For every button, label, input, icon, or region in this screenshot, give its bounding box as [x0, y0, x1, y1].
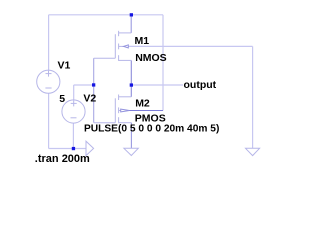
transistor M1	[94, 31, 132, 61]
wire	[72, 123, 74, 149]
transistor M2	[94, 95, 131, 124]
ground left rotated	[86, 141, 94, 155]
node junction bottom	[72, 147, 75, 150]
svg-text:5: 5	[59, 93, 65, 105]
svg-text:PULSE(0 5 0 0 0 20m 40m 5): PULSE(0 5 0 0 0 20m 40m 5)	[84, 124, 219, 135]
node junction input	[92, 83, 95, 86]
wire	[252, 46, 254, 148]
svg-text:V1: V1	[58, 60, 71, 72]
svg-text:M2: M2	[135, 98, 150, 110]
wire	[49, 14, 163, 16]
node junction top	[130, 13, 133, 16]
wire	[49, 148, 86, 150]
wire	[74, 84, 94, 86]
voltage source V1	[37, 70, 60, 93]
svg-text:V2: V2	[83, 93, 96, 105]
svg-text:output: output	[184, 79, 217, 91]
wire	[93, 58, 95, 123]
ground right	[246, 148, 260, 155]
svg-text:NMOS: NMOS	[135, 52, 167, 64]
wire	[130, 123, 132, 149]
wire	[48, 15, 50, 70]
svg-text:.tran 200m: .tran 200m	[35, 153, 90, 165]
wire	[131, 84, 183, 86]
wire	[130, 85, 132, 97]
wire	[130, 60, 132, 85]
wire	[129, 110, 163, 112]
wire	[73, 85, 75, 100]
wire	[48, 93, 50, 148]
wire	[130, 15, 132, 33]
svg-text:M1: M1	[135, 35, 150, 47]
node junction output	[130, 83, 133, 86]
wire	[162, 15, 164, 111]
voltage source V2	[62, 100, 85, 123]
ground under M2	[124, 148, 138, 155]
wire	[128, 45, 253, 47]
